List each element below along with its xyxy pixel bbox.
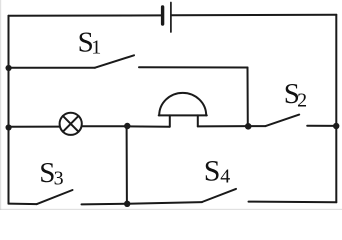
junction node B (lamp right) bbox=[124, 123, 130, 129]
junction node A (left middle) bbox=[6, 124, 12, 130]
battery B (positive plate, long thin) bbox=[170, 3, 172, 33]
junction node C (bell right) bbox=[245, 123, 252, 130]
bell base bbox=[159, 114, 207, 116]
svg-text:3: 3 bbox=[54, 168, 64, 190]
switch S2 blade bbox=[266, 115, 300, 127]
junction node D (bottom) bbox=[124, 201, 130, 207]
wire S4 contact to bottom-right corner bbox=[249, 201, 337, 204]
wire middle: node A to lamp bbox=[9, 126, 60, 128]
wire node C to switch S2 pivot bbox=[248, 125, 266, 127]
wire bell right leg to node C bbox=[198, 125, 248, 127]
scan edge artifacts bbox=[0, 0, 1, 210]
bell right leg bbox=[197, 115, 199, 126]
wire lamp to node B bbox=[82, 125, 128, 127]
bell left leg bbox=[169, 115, 171, 126]
lamp L bbox=[60, 113, 82, 135]
switch S4 blade bbox=[202, 189, 236, 202]
svg-text:S: S bbox=[204, 154, 221, 187]
junction node at S1 branch bbox=[6, 65, 12, 71]
svg-text:2: 2 bbox=[297, 90, 307, 112]
svg-text:4: 4 bbox=[220, 165, 230, 187]
bell dome bbox=[159, 93, 206, 116]
junction node right-mid bbox=[333, 123, 339, 129]
wire node D to S4 pivot bbox=[128, 202, 202, 204]
wire S2 right contact bbox=[307, 125, 336, 127]
battery B (negative plate, short thick) bbox=[161, 7, 164, 24]
switch S3 blade bbox=[37, 190, 73, 204]
wire top-left segment bbox=[9, 14, 162, 16]
wire node B down to bottom bbox=[126, 126, 128, 203]
wire top-right segment bbox=[172, 14, 337, 16]
wire node B to bell left leg bbox=[128, 125, 170, 127]
wire left vertical bbox=[8, 16, 10, 204]
svg-text:1: 1 bbox=[91, 36, 101, 58]
wire S1 branch left bbox=[9, 67, 96, 69]
wire bottom-left to S3 bbox=[9, 203, 37, 206]
switch S1 blade bbox=[95, 55, 134, 67]
wire S1 drop to middle node bbox=[247, 68, 249, 127]
wire S1 branch right bbox=[139, 66, 248, 68]
wire right vertical bbox=[335, 15, 337, 203]
wire S3 contact to node D bbox=[82, 203, 128, 206]
